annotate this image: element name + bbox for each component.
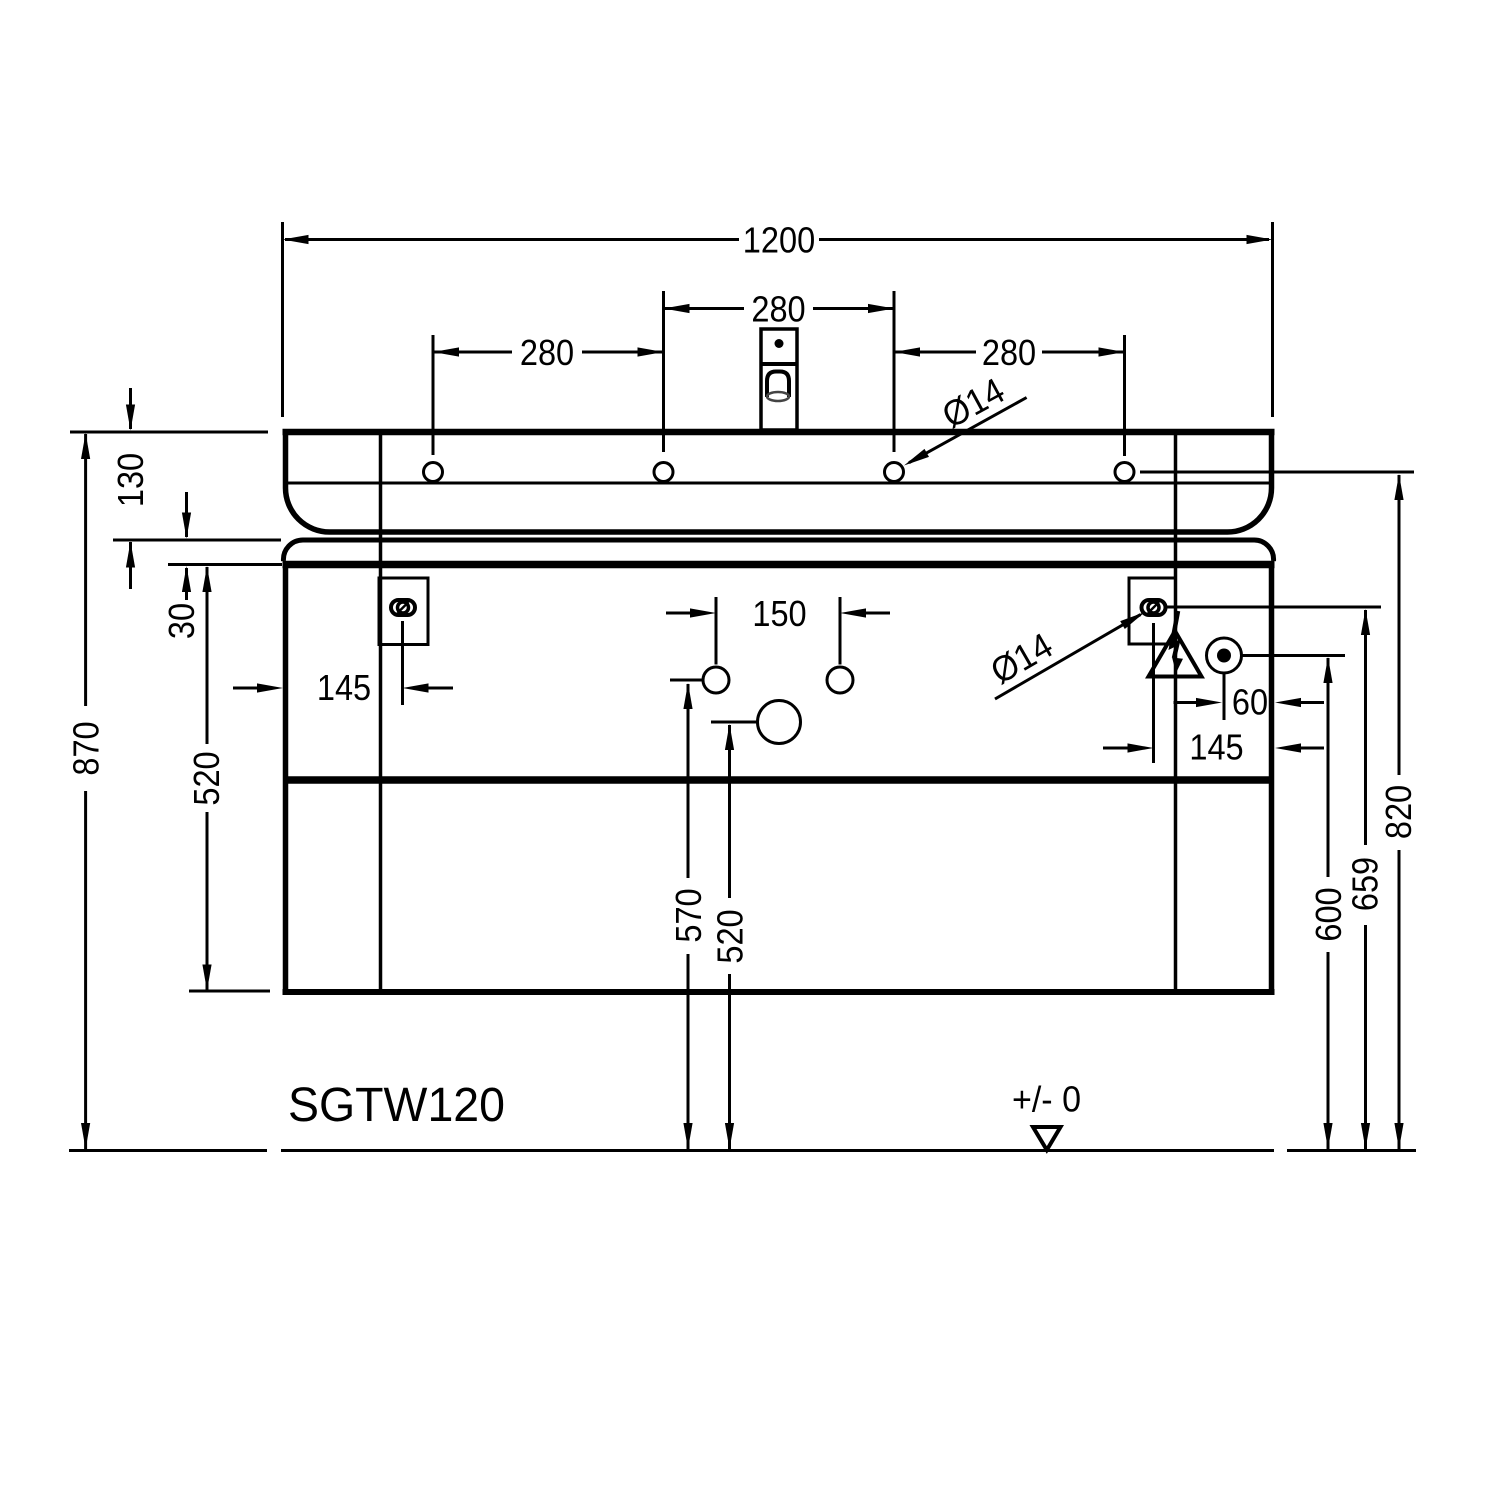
- svg-text:1200: 1200: [743, 220, 815, 261]
- faucet body: [761, 329, 797, 430]
- dim 280 center extension left: [662, 291, 665, 452]
- mounting hole 4: [1115, 463, 1134, 482]
- shelf pin hole right: [827, 667, 853, 693]
- leader line dia 14 screw: [995, 615, 1141, 699]
- svg-text:280: 280: [520, 332, 574, 373]
- svg-text:659: 659: [1345, 857, 1386, 911]
- svg-text:870: 870: [66, 721, 107, 775]
- leader line dia 14 basin hole: [909, 398, 1027, 463]
- floor line: [69, 1149, 267, 1152]
- cabinet left side: [283, 565, 289, 993]
- svg-text:+/- 0: +/- 0: [1012, 1079, 1081, 1120]
- dim 520 mid top tick: [711, 721, 757, 724]
- dim 60 extension: [1223, 673, 1226, 720]
- svg-text:145: 145: [1189, 727, 1243, 768]
- dim 820: [1394, 474, 1403, 500]
- faucet handle dot: [775, 339, 784, 348]
- svg-text:60: 60: [1232, 682, 1268, 723]
- cabinet bottom edge: [283, 989, 1275, 995]
- dim 150 extension left: [715, 597, 718, 665]
- left cam screw: [391, 600, 415, 615]
- mounting hole 3: [885, 463, 904, 482]
- dim 659: [1361, 609, 1370, 635]
- dim 150 extension right: [839, 597, 842, 665]
- reference line basin top left: [70, 431, 268, 434]
- svg-text:SGTW120: SGTW120: [288, 1079, 505, 1132]
- dim 280 right extension: [1123, 335, 1126, 456]
- dim 30 arrows: [185, 492, 188, 537]
- outlet symbol: [1207, 638, 1242, 673]
- svg-text:150: 150: [752, 593, 806, 634]
- cabinet top edge: [283, 561, 1275, 569]
- dim 520 left bottom tick: [189, 990, 270, 993]
- dim 145 right extension: [1152, 623, 1155, 763]
- svg-text:280: 280: [751, 289, 805, 330]
- dim 145 left extension: [401, 621, 404, 705]
- dim 570: [683, 683, 692, 709]
- dim 280 left: [433, 351, 512, 354]
- dim 150: [666, 612, 691, 615]
- dim 1200: [285, 238, 739, 241]
- svg-text:570: 570: [668, 888, 709, 942]
- faucet spout: [767, 372, 789, 398]
- dim 600 tick: [1242, 654, 1345, 657]
- dim 1200 extension left: [281, 222, 284, 417]
- reference line cabinet top left: [168, 563, 282, 566]
- cable hole: [758, 701, 801, 744]
- basin bottom shadow line: [329, 530, 1227, 535]
- dim 145 right: [1103, 747, 1128, 750]
- dim 659 tick: [1167, 606, 1382, 609]
- cabinet right side: [1269, 565, 1275, 993]
- dim 280 center extension right: [893, 291, 896, 452]
- mounting hole 2: [654, 463, 673, 482]
- dim 570 top tick: [670, 679, 702, 682]
- right panel line: [1174, 435, 1178, 989]
- shelf pin hole left: [703, 667, 729, 693]
- left panel line: [379, 435, 383, 989]
- svg-text:600: 600: [1308, 887, 1349, 941]
- washbasin inner rim line: [287, 482, 1269, 485]
- svg-text:820: 820: [1378, 785, 1419, 839]
- right cam screw: [1142, 600, 1166, 615]
- dim 60: [1174, 701, 1197, 704]
- dim 280 center: [664, 307, 745, 310]
- dim 870: [84, 434, 87, 706]
- svg-text:130: 130: [110, 453, 151, 507]
- dim 1200 extension right: [1271, 222, 1274, 417]
- washbasin top edge: [283, 429, 1275, 436]
- svg-text:280: 280: [982, 332, 1036, 373]
- dim 280 left extension: [432, 335, 435, 455]
- left hinge plate: [379, 578, 428, 645]
- svg-text:145: 145: [317, 667, 371, 708]
- mounting hole 1: [424, 463, 443, 482]
- lightning bolt: [1172, 611, 1179, 658]
- dim 820 tick: [1140, 471, 1414, 474]
- dim 520 left: [206, 567, 209, 744]
- right hinge plate: [1129, 578, 1176, 644]
- svg-text:520: 520: [186, 751, 227, 805]
- dim 130 arrows: [129, 388, 132, 429]
- dim 280 right: [894, 351, 976, 354]
- vanity deck edge: [283, 540, 1273, 561]
- dim 520 mid: [725, 724, 734, 750]
- faucet divider: [760, 362, 799, 366]
- dim 600: [1323, 657, 1332, 683]
- drawer divider: [288, 776, 1269, 784]
- svg-text:30: 30: [161, 603, 202, 639]
- reference line deck left: [113, 539, 281, 542]
- dim 145 left: [233, 687, 258, 690]
- washbasin body outline: [286, 432, 1272, 532]
- svg-text:520: 520: [710, 909, 751, 963]
- datum triangle: [1033, 1127, 1061, 1150]
- warning triangle: [1149, 631, 1202, 677]
